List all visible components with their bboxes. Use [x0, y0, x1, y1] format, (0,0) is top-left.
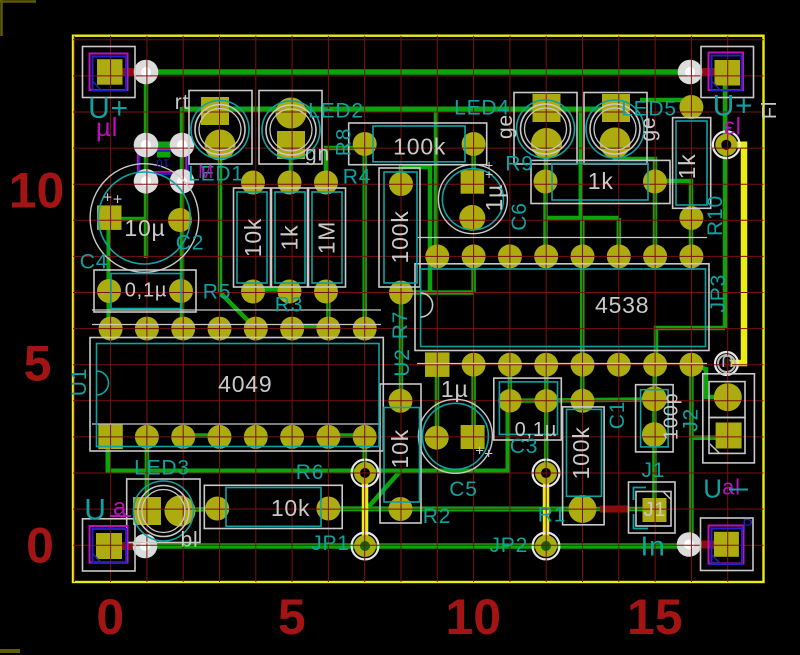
svg-text:R7: R7 [389, 311, 412, 339]
svg-text:10: 10 [445, 589, 501, 645]
svg-text:0: 0 [26, 518, 54, 574]
svg-text:+: + [484, 446, 494, 463]
svg-text:C4: C4 [80, 251, 108, 274]
svg-text:5: 5 [24, 336, 52, 392]
svg-text:1µ: 1µ [481, 184, 507, 212]
svg-text:C5: C5 [449, 478, 477, 501]
svg-text:100k: 100k [568, 426, 594, 479]
svg-text:ge: ge [494, 114, 517, 139]
svg-text:LED3: LED3 [134, 457, 190, 480]
svg-text:In: In [641, 531, 666, 562]
svg-text:R10: R10 [704, 195, 727, 236]
svg-text:R1: R1 [538, 504, 566, 527]
svg-text:10k: 10k [387, 429, 413, 468]
svg-text:R6: R6 [296, 461, 324, 484]
svg-text:+: + [103, 190, 113, 207]
svg-text:0,1µ: 0,1µ [515, 419, 558, 441]
svg-text:0,1µ: 0,1µ [125, 280, 168, 302]
svg-text:1k: 1k [674, 153, 700, 179]
svg-text:C2: C2 [176, 232, 204, 255]
svg-text:C6: C6 [508, 202, 531, 230]
svg-text:100k: 100k [387, 210, 413, 263]
svg-text:P: P [742, 517, 753, 534]
svg-text:U: U [84, 494, 106, 527]
svg-text:rt: rt [175, 91, 189, 114]
svg-text:R5: R5 [203, 281, 231, 304]
svg-text:4538: 4538 [595, 292, 649, 318]
svg-text:U1: U1 [68, 368, 91, 396]
svg-text:LED1: LED1 [188, 163, 244, 186]
svg-text:J1: J1 [644, 499, 667, 521]
svg-text:JP3: JP3 [707, 274, 730, 313]
svg-text:µl: µl [96, 112, 118, 142]
svg-text:+: + [113, 192, 123, 209]
svg-text:C1: C1 [606, 401, 629, 429]
svg-text:100p: 100p [660, 392, 682, 440]
svg-text:10k: 10k [271, 495, 310, 521]
svg-text:gn: gn [305, 143, 330, 166]
svg-text:J1: J1 [642, 459, 666, 482]
svg-text:+: + [485, 166, 494, 182]
svg-text:10k: 10k [240, 218, 266, 257]
svg-text:R9: R9 [505, 153, 533, 176]
svg-text:0: 0 [96, 589, 124, 645]
svg-text:1k: 1k [588, 168, 614, 194]
svg-text:1M: 1M [314, 221, 340, 255]
svg-text:1k: 1k [277, 225, 303, 251]
svg-text:JP2: JP2 [490, 534, 529, 557]
svg-text:LED2: LED2 [308, 100, 364, 123]
svg-text:1µ: 1µ [441, 376, 469, 402]
svg-text:Fl: Fl [759, 101, 781, 119]
svg-text:R2: R2 [423, 505, 451, 528]
svg-text:U: U [720, 352, 733, 371]
svg-text:U: U [703, 474, 723, 504]
svg-text:U2: U2 [391, 348, 414, 376]
svg-text:10: 10 [156, 157, 170, 169]
svg-text:R8: R8 [333, 128, 356, 156]
svg-text:10: 10 [9, 162, 65, 218]
svg-text:JP1: JP1 [311, 532, 350, 555]
svg-text:10µ: 10µ [124, 215, 165, 241]
svg-text:4049: 4049 [218, 371, 272, 397]
svg-text:R4: R4 [343, 166, 371, 189]
svg-text:εl: εl [724, 113, 742, 140]
svg-text:bl: bl [181, 529, 199, 552]
svg-text:al: al [722, 475, 741, 500]
svg-text:ge: ge [637, 117, 660, 142]
svg-text:M: M [198, 162, 214, 182]
svg-text:5: 5 [278, 589, 306, 645]
svg-text:R3: R3 [275, 294, 303, 317]
svg-text:100k: 100k [393, 134, 446, 160]
svg-text:J2: J2 [679, 408, 702, 432]
svg-text:15: 15 [627, 589, 683, 645]
